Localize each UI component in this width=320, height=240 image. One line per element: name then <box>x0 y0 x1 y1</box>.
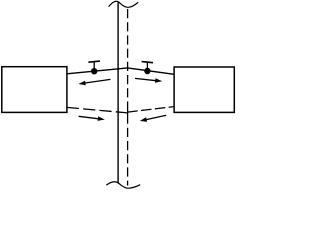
vertical pipe (dashed line) <box>127 9 129 186</box>
left valve stem <box>93 62 95 71</box>
left box <box>2 67 67 113</box>
lower-left flow arrow (points right) <box>79 116 105 121</box>
right valve handle T-bar <box>142 62 153 63</box>
upper-left pipe (left box to riser) <box>67 68 128 74</box>
left valve handle T-bar <box>88 61 100 62</box>
top pipe-break squiggle <box>109 1 139 7</box>
right valve stem <box>146 62 148 71</box>
lower-left dashed pipe <box>67 107 128 113</box>
right valve body (filled circle) <box>144 68 150 74</box>
vertical pipe (solid line) <box>117 2 119 183</box>
lower-right dashed pipe <box>128 107 175 113</box>
upper-right pipe (riser to right box) <box>128 68 175 74</box>
junction fill on dashed riser at lower-pipe vertex <box>127 110 129 114</box>
right box <box>174 67 234 112</box>
bottom pipe-break squiggle <box>106 182 140 188</box>
upper-right flow arrow (points right) <box>135 78 162 83</box>
left valve body (filled circle) <box>91 68 97 74</box>
upper-left flow arrow (points left) <box>78 79 110 85</box>
lower-right flow arrow (points left) <box>140 115 166 122</box>
